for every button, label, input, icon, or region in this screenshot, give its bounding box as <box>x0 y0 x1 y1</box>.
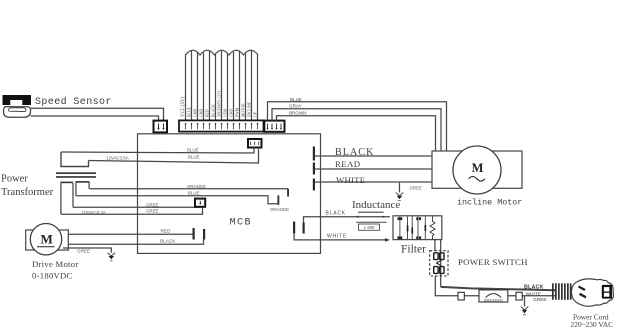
svg-text:VCC (5V): VCC (5V) <box>181 96 186 117</box>
svg-text:BLUE: BLUE <box>187 148 199 153</box>
svg-text:Speed Sensor: Speed Sensor <box>35 96 112 108</box>
svg-text:BLUE: BLUE <box>188 106 192 117</box>
svg-text:RED: RED <box>161 228 172 233</box>
svg-text:POWER SWITCH: POWER SWITCH <box>458 257 528 267</box>
svg-text:GRAY: GRAY <box>289 104 302 109</box>
svg-text:L-908: L-908 <box>364 225 375 230</box>
svg-text:Inductance: Inductance <box>352 199 400 211</box>
svg-text:M: M <box>41 232 53 247</box>
svg-text:GREE: GREE <box>146 202 159 207</box>
svg-text:ORANGE: ORANGE <box>270 207 289 212</box>
svg-text:UP: UP <box>254 112 258 117</box>
svg-text:220~230 VAC: 220~230 VAC <box>571 320 614 329</box>
svg-text:0-180VDC: 0-180VDC <box>32 271 73 281</box>
svg-text:GREE: GREE <box>410 186 423 191</box>
svg-text:Drive Motor: Drive Motor <box>32 259 79 269</box>
svg-text:SPEED(5V-12V): SPEED(5V-12V) <box>218 90 222 117</box>
svg-text:BLUE: BLUE <box>188 190 200 195</box>
svg-text:INCLINE: INCLINE <box>248 101 252 117</box>
svg-text:MOTOR: MOTOR <box>242 103 246 117</box>
svg-text:BROWN: BROWN <box>289 111 307 116</box>
svg-text:Filter: Filter <box>401 243 426 255</box>
svg-text:GREE: GREE <box>77 248 90 253</box>
svg-text:110VAC0.3A: 110VAC0.3A <box>81 210 106 215</box>
svg-text:GND: GND <box>200 109 204 117</box>
svg-text:BLUE: BLUE <box>188 155 200 160</box>
svg-text:Transformer: Transformer <box>1 187 54 198</box>
svg-text:12VAC3.6A: 12VAC3.6A <box>106 155 129 160</box>
svg-text:BLACK: BLACK <box>326 210 346 216</box>
svg-text:VDD: VDD <box>224 109 228 117</box>
svg-text:READ: READ <box>335 159 361 169</box>
svg-text:WHITE: WHITE <box>336 175 365 185</box>
svg-text:GREE: GREE <box>146 209 159 214</box>
svg-text:PWM: PWM <box>236 107 240 117</box>
svg-text:BLACK: BLACK <box>160 239 176 244</box>
svg-text:BLACK: BLACK <box>524 285 544 291</box>
svg-text:WHITE: WHITE <box>327 234 347 240</box>
svg-text:MCB: MCB <box>230 218 253 229</box>
svg-text:BLACK: BLACK <box>212 104 216 117</box>
svg-text:M: M <box>472 161 484 175</box>
svg-text:RED: RED <box>206 109 210 117</box>
svg-text:GND: GND <box>194 109 198 117</box>
svg-text:BREAKER: BREAKER <box>484 297 503 302</box>
svg-text:BLACK: BLACK <box>335 147 374 158</box>
svg-text:WHITE: WHITE <box>526 292 541 298</box>
svg-text:incline Motor: incline Motor <box>457 197 522 207</box>
svg-text:GND: GND <box>230 109 234 117</box>
svg-text:BLUE: BLUE <box>290 97 302 102</box>
svg-text:Power: Power <box>1 174 28 185</box>
svg-text:ORANGE: ORANGE <box>187 184 206 189</box>
svg-text:GREE: GREE <box>533 297 547 303</box>
